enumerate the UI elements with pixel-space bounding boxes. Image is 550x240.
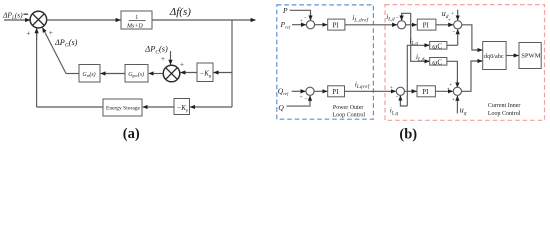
- svg-text:Energy Storage: Energy Storage: [106, 106, 141, 112]
- svg-text:SPWM: SPWM: [521, 53, 541, 60]
- wire PI3 to B5: [435, 90, 452, 92]
- svg-text:Current Inner: Current Inner: [488, 103, 521, 109]
- block -Kg: [197, 63, 213, 82]
- svg-text:dq0/abc: dq0/abc: [484, 53, 504, 60]
- svg-text:Ms+D: Ms+D: [126, 23, 143, 29]
- block SPWM: [519, 43, 541, 69]
- svg-text:Qref: Qref: [278, 87, 289, 97]
- wire i_Lq riser to ωC1: [407, 45, 429, 106]
- svg-text:PI: PI: [423, 22, 430, 30]
- wire P elbow into B1: [290, 10, 311, 20]
- svg-text:+: +: [49, 29, 53, 37]
- block PI1: [328, 19, 345, 30]
- summing junction S2: [163, 65, 180, 82]
- svg-text:iL,q: iL,q: [390, 107, 399, 117]
- wire output line with arrow: [152, 19, 256, 21]
- node ΔP_L(s) input label: [2, 11, 28, 22]
- block -Kp: [174, 99, 190, 115]
- svg-text:(b): (b): [399, 127, 417, 143]
- svg-text:+: +: [180, 61, 184, 69]
- svg-text:P: P: [282, 6, 288, 15]
- svg-text:iL,d: iL,d: [386, 13, 395, 23]
- svg-text:−: −: [452, 29, 455, 35]
- svg-text:+: +: [448, 18, 451, 24]
- svg-text:−: −: [395, 95, 398, 101]
- wire S1 to transfer block: [47, 19, 121, 21]
- svg-text:Q: Q: [278, 103, 284, 112]
- wire bottom row right segment: [190, 106, 232, 108]
- svg-text:+: +: [300, 95, 303, 101]
- svg-text:−: −: [305, 96, 308, 102]
- svg-text:Loop Control: Loop Control: [333, 113, 366, 119]
- wire Q_ref into Bq1: [292, 90, 306, 92]
- summing circle B2: [398, 21, 406, 29]
- block Ggov(s): [125, 65, 148, 83]
- svg-text:ΔPG(s): ΔPG(s): [54, 38, 78, 49]
- block PI3: [417, 86, 435, 97]
- svg-text:+: +: [390, 85, 393, 91]
- wire i_Lq elbow into B4 bottom: [400, 96, 407, 106]
- svg-text:iL,d: iL,d: [416, 53, 425, 63]
- current inner loop dashed box: [385, 5, 545, 121]
- svg-text:+: +: [27, 30, 31, 38]
- wire -Kg to S2: [181, 72, 198, 74]
- svg-text:+: +: [300, 18, 303, 24]
- svg-text:+: +: [451, 11, 454, 17]
- summing circle B4: [396, 87, 404, 95]
- svg-text:Pref: Pref: [280, 20, 291, 30]
- svg-text:(a): (a): [123, 126, 140, 142]
- svg-text:+: +: [161, 55, 165, 63]
- svg-text:−: −: [396, 15, 399, 21]
- svg-text:Gm(s): Gm(s): [83, 71, 96, 78]
- block 1/(Ms+D): [121, 11, 152, 29]
- wire Bq1 to PI4: [314, 90, 327, 92]
- svg-text:ωC: ωC: [432, 42, 442, 50]
- wire energy storage feedback up into S1: [36, 29, 38, 108]
- svg-text:Power Outer: Power Outer: [333, 105, 364, 111]
- wire ωC2 output down into B5 top: [447, 61, 458, 87]
- block ωC2: [430, 58, 447, 67]
- wire -Kp to Energy Storage: [143, 106, 174, 108]
- svg-text:+: +: [447, 86, 450, 92]
- summing circle B5: [453, 87, 461, 95]
- block dq0/abc: [483, 42, 506, 70]
- svg-text:−: −: [304, 15, 307, 21]
- wire PI4 out to B4: [345, 90, 396, 92]
- svg-text:+: +: [452, 97, 455, 103]
- wire Gm output to diagonal: [66, 73, 79, 75]
- wire B4 to PI3: [405, 90, 417, 92]
- block Gm(s): [79, 65, 100, 83]
- svg-text:Loop Control: Loop Control: [488, 111, 521, 117]
- wire PI2 to B3: [436, 24, 453, 26]
- summing circle B3: [454, 21, 462, 29]
- wire u_q up into B5 bottom: [456, 96, 458, 114]
- wire B2 to PI2: [406, 24, 417, 26]
- svg-text:PI: PI: [332, 88, 339, 96]
- svg-text:Δf(s): Δf(s): [169, 6, 191, 18]
- wire into -Kg block: [214, 72, 232, 74]
- wire Ggov to Gm: [101, 73, 125, 75]
- summing circle Bq1: [306, 87, 314, 95]
- svg-text:PI: PI: [422, 88, 429, 96]
- wire B1 to PI1: [315, 24, 328, 26]
- wire PI1 out to B2: [345, 24, 397, 26]
- wire B3 output to dq0/abc upper input: [462, 25, 482, 50]
- power outer loop dashed box: [277, 5, 374, 119]
- wire feedback branch vertical: [231, 20, 233, 107]
- svg-text:uq: uq: [460, 106, 467, 117]
- svg-text:PI: PI: [333, 22, 340, 30]
- wire u_d down into B3: [457, 10, 459, 21]
- block PI2: [417, 19, 436, 30]
- wire B5 output to dq0/abc lower input: [462, 61, 483, 91]
- block Energy Storage: [103, 99, 142, 116]
- svg-text:iL,dref: iL,dref: [352, 13, 368, 24]
- wire Energy Storage to left riser: [37, 106, 103, 108]
- wire ωC1 output up into B3 bottom: [447, 44, 458, 46]
- summing circle B1: [306, 21, 314, 29]
- svg-text:ωC: ωC: [432, 58, 442, 66]
- wire i_Ld elbow into B2 top and down to ωC2: [402, 13, 430, 61]
- svg-text:1: 1: [135, 15, 138, 21]
- wire ΔP_C input arrow: [170, 51, 172, 65]
- wire S2 to Ggov: [149, 73, 163, 75]
- summing junction S1: [30, 11, 47, 28]
- wire diagonal ΔP_G into S1: [43, 28, 67, 74]
- svg-text:iLqref: iLqref: [355, 79, 370, 90]
- block PI4: [328, 86, 345, 97]
- wire input arrow into summing junction: [4, 19, 30, 21]
- block ωC1: [430, 42, 447, 51]
- wire P_ref into B1: [292, 24, 306, 26]
- wire Q elbow into Bq1 bottom: [287, 96, 311, 106]
- wire dq0/abc to SPWM: [506, 55, 518, 57]
- svg-text:ΔPC(s): ΔPC(s): [144, 45, 168, 56]
